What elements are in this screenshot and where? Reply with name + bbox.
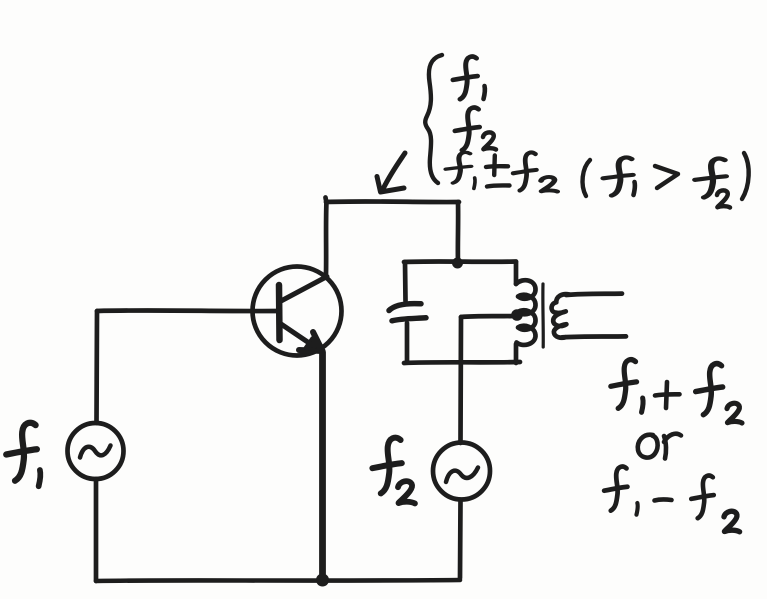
node: junction dot at tank top — [452, 258, 463, 269]
label or (output) — [638, 434, 681, 459]
node: inductor centre-tap dot — [511, 309, 523, 321]
label f1 (brace line 1) — [453, 57, 485, 100]
source f2 — [433, 443, 490, 500]
wire: emitter vertical (thick) — [319, 352, 326, 578]
inductor L1 (transformer primary) — [516, 262, 536, 363]
wire: f2 vertical up to centre tap — [458, 317, 463, 443]
wire: collector vertical riser — [326, 198, 327, 275]
transformer core — [541, 284, 545, 347]
wire: tank feed vertical — [456, 202, 461, 262]
wire: centre-tap horizontal to f2 — [461, 316, 513, 317]
wire: tank top horizontal — [404, 259, 516, 264]
transistor Q1 — [253, 267, 342, 356]
capacitor C1 — [389, 262, 426, 362]
wire: base horizontal — [97, 308, 280, 313]
wire: bottom horizontal rail — [96, 580, 460, 581]
wire: f2 lower vertical — [458, 500, 463, 578]
wire: left vertical down to f1 — [94, 311, 99, 423]
source f1 — [68, 423, 124, 479]
label f2 (brace line 2) — [455, 108, 496, 151]
wire: f1 lower vertical — [94, 479, 99, 581]
node: emitter-rail junction dot — [316, 574, 329, 587]
wire: tank bottom horizontal — [404, 362, 520, 363]
arrow pointing to collector wire — [377, 153, 405, 192]
label f1 + f2 (output line 1) — [611, 360, 742, 423]
wire: secondary bottom lead — [562, 336, 626, 337]
label f1 - f2 (output line 2) — [604, 467, 739, 532]
curly brace — [425, 55, 442, 183]
wire: top horizontal from collector to tank feed — [326, 199, 459, 204]
label f1 at source f1 — [6, 423, 40, 487]
label f2 at source f2 — [372, 438, 415, 504]
wire: secondary top lead — [566, 294, 622, 295]
label f1 +/- f2 (f1 > f2) (brace line 3) — [446, 152, 749, 207]
inductor L2 (transformer secondary) — [552, 294, 570, 338]
